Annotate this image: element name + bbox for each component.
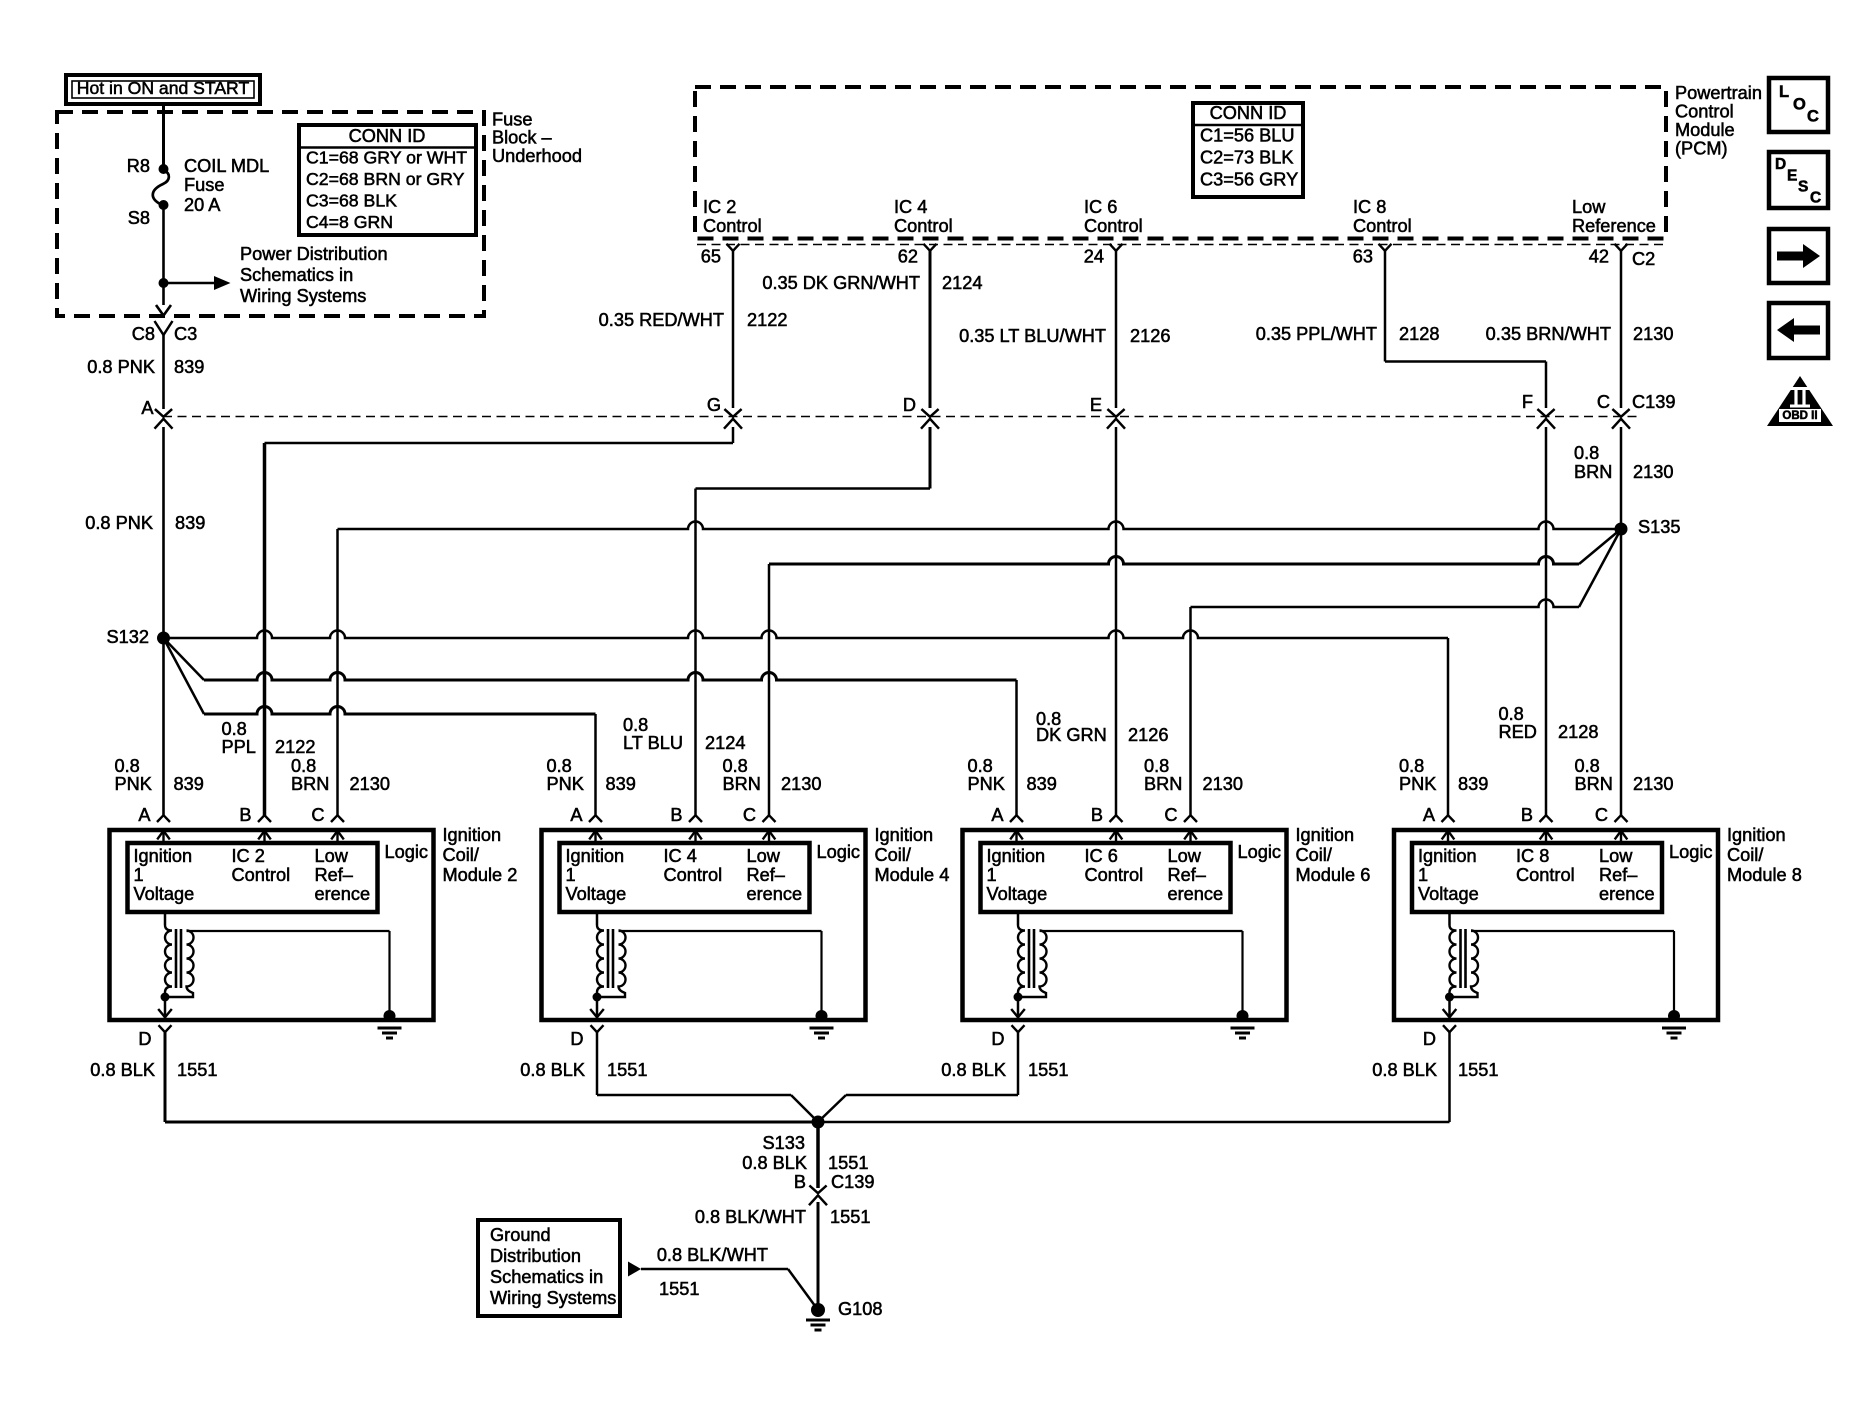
svg-text:A: A — [1423, 805, 1436, 825]
svg-text:Coil/: Coil/ — [875, 845, 912, 865]
svg-text:Fuse: Fuse — [492, 110, 532, 130]
svg-text:Control: Control — [1516, 865, 1575, 885]
svg-text:PNK: PNK — [1399, 774, 1436, 794]
svg-text:Voltage: Voltage — [987, 884, 1048, 904]
svg-text:2126: 2126 — [1130, 326, 1170, 346]
svg-text:Low: Low — [1168, 846, 1202, 866]
svg-text:C: C — [1597, 392, 1610, 412]
svg-text:C: C — [1807, 107, 1819, 125]
svg-text:0.8: 0.8 — [1144, 756, 1169, 776]
svg-text:1551: 1551 — [177, 1060, 217, 1080]
svg-text:A: A — [991, 805, 1004, 825]
svg-text:Hot in ON and START: Hot in ON and START — [77, 78, 250, 98]
svg-text:1: 1 — [566, 865, 576, 885]
svg-text:A: A — [141, 398, 154, 418]
svg-text:20 A: 20 A — [184, 195, 221, 215]
svg-text:Control: Control — [1084, 216, 1143, 236]
svg-text:Ignition: Ignition — [1418, 846, 1477, 866]
svg-text:S8: S8 — [128, 208, 150, 228]
svg-text:2130: 2130 — [781, 774, 821, 794]
svg-text:0.8: 0.8 — [222, 719, 247, 739]
svg-text:erence: erence — [315, 884, 371, 904]
svg-text:C4=8 GRN: C4=8 GRN — [306, 212, 393, 232]
svg-text:Logic: Logic — [385, 842, 428, 862]
svg-text:erence: erence — [1168, 884, 1224, 904]
svg-text:Ref–: Ref– — [1599, 865, 1638, 885]
svg-text:BRN: BRN — [1574, 462, 1612, 482]
svg-text:0.35 DK GRN/WHT: 0.35 DK GRN/WHT — [762, 273, 920, 293]
svg-text:E: E — [1787, 168, 1797, 185]
svg-text:IC 2: IC 2 — [232, 846, 265, 866]
svg-text:IC 4: IC 4 — [664, 846, 697, 866]
svg-text:BRN: BRN — [723, 774, 761, 794]
svg-text:C3=56 GRY: C3=56 GRY — [1200, 170, 1298, 190]
svg-text:0.35 RED/WHT: 0.35 RED/WHT — [599, 310, 724, 330]
svg-text:2128: 2128 — [1558, 722, 1598, 742]
svg-text:Wiring Systems: Wiring Systems — [490, 1288, 616, 1308]
svg-text:2130: 2130 — [1633, 324, 1673, 344]
svg-text:0.8: 0.8 — [1399, 756, 1424, 776]
svg-text:1: 1 — [987, 865, 997, 885]
svg-text:Logic: Logic — [817, 842, 860, 862]
svg-text:42: 42 — [1589, 247, 1609, 267]
svg-text:0.35 PPL/WHT: 0.35 PPL/WHT — [1256, 324, 1377, 344]
svg-text:0.35 LT BLU/WHT: 0.35 LT BLU/WHT — [959, 326, 1106, 346]
svg-text:Ignition: Ignition — [875, 825, 934, 845]
svg-text:LT BLU: LT BLU — [623, 733, 683, 753]
svg-text:Control: Control — [1675, 102, 1734, 122]
svg-text:2124: 2124 — [942, 273, 982, 293]
svg-text:C2=68 BRN or GRY: C2=68 BRN or GRY — [306, 169, 465, 189]
svg-text:2126: 2126 — [1128, 725, 1168, 745]
svg-text:Voltage: Voltage — [134, 884, 195, 904]
svg-text:Coil/: Coil/ — [1727, 845, 1764, 865]
svg-text:839: 839 — [606, 774, 636, 794]
svg-text:B: B — [239, 805, 251, 825]
svg-text:PNK: PNK — [968, 774, 1005, 794]
svg-text:0.8: 0.8 — [1499, 704, 1524, 724]
svg-text:Control: Control — [1353, 216, 1412, 236]
svg-text:2124: 2124 — [705, 733, 745, 753]
svg-text:0.8 BLK: 0.8 BLK — [742, 1153, 807, 1173]
svg-text:S132: S132 — [107, 627, 149, 647]
svg-text:Low: Low — [747, 846, 781, 866]
svg-text:Fuse: Fuse — [184, 175, 224, 195]
svg-text:0.8 BLK: 0.8 BLK — [1372, 1060, 1437, 1080]
svg-text:839: 839 — [1458, 774, 1488, 794]
svg-text:BRN: BRN — [1575, 774, 1613, 794]
svg-text:PPL: PPL — [222, 737, 256, 757]
svg-text:Ignition: Ignition — [1296, 825, 1355, 845]
svg-text:0.8: 0.8 — [115, 756, 140, 776]
svg-text:PNK: PNK — [115, 774, 152, 794]
svg-text:IC 8: IC 8 — [1516, 846, 1549, 866]
svg-text:2122: 2122 — [747, 310, 787, 330]
svg-text:Coil/: Coil/ — [443, 845, 480, 865]
svg-text:G: G — [707, 395, 721, 415]
svg-text:C: C — [1164, 805, 1177, 825]
svg-text:CONN ID: CONN ID — [1210, 103, 1287, 123]
svg-text:62: 62 — [898, 247, 918, 267]
svg-text:Wiring Systems: Wiring Systems — [240, 286, 366, 306]
svg-text:Control: Control — [664, 865, 723, 885]
svg-text:G108: G108 — [838, 1299, 883, 1319]
svg-text:Ignition: Ignition — [443, 825, 502, 845]
svg-text:2128: 2128 — [1399, 324, 1439, 344]
svg-text:1551: 1551 — [607, 1060, 647, 1080]
svg-text:IC 2: IC 2 — [703, 197, 736, 217]
svg-text:IC 4: IC 4 — [894, 197, 927, 217]
svg-text:C1=68 GRY or WHT: C1=68 GRY or WHT — [306, 148, 467, 168]
svg-text:Voltage: Voltage — [566, 884, 627, 904]
svg-text:D: D — [1423, 1029, 1436, 1049]
svg-text:65: 65 — [701, 247, 721, 267]
svg-text:IC 6: IC 6 — [1085, 846, 1118, 866]
svg-text:Power Distribution: Power Distribution — [240, 244, 388, 264]
svg-text:C8: C8 — [132, 324, 155, 344]
svg-text:B: B — [670, 805, 682, 825]
svg-text:839: 839 — [174, 357, 204, 377]
svg-text:0.8: 0.8 — [723, 756, 748, 776]
svg-text:Ignition: Ignition — [987, 846, 1046, 866]
svg-text:1: 1 — [1418, 865, 1428, 885]
svg-text:Module 2: Module 2 — [443, 865, 518, 885]
svg-text:C3: C3 — [174, 324, 197, 344]
svg-text:C1=56 BLU: C1=56 BLU — [1200, 126, 1295, 146]
svg-text:0.8 PNK: 0.8 PNK — [85, 513, 153, 533]
svg-text:2130: 2130 — [1633, 774, 1673, 794]
svg-text:D: D — [903, 395, 916, 415]
svg-text:IC 8: IC 8 — [1353, 197, 1386, 217]
svg-text:R8: R8 — [127, 156, 150, 176]
svg-text:24: 24 — [1084, 247, 1104, 267]
svg-text:Reference: Reference — [1572, 216, 1656, 236]
svg-text:B: B — [1091, 805, 1103, 825]
svg-text:Powertrain: Powertrain — [1675, 83, 1762, 103]
svg-text:0.8: 0.8 — [1574, 443, 1599, 463]
svg-text:C: C — [1595, 805, 1608, 825]
svg-text:1551: 1551 — [659, 1279, 699, 1299]
svg-text:Ignition: Ignition — [134, 846, 193, 866]
svg-text:Coil/: Coil/ — [1296, 845, 1333, 865]
svg-text:C: C — [311, 805, 324, 825]
svg-text:Control: Control — [1085, 865, 1144, 885]
svg-text:839: 839 — [175, 513, 205, 533]
svg-text:Block –: Block – — [492, 128, 553, 148]
svg-text:1551: 1551 — [1028, 1060, 1068, 1080]
svg-text:Low: Low — [1599, 846, 1633, 866]
svg-text:C: C — [1810, 190, 1821, 207]
svg-text:0.8: 0.8 — [1575, 756, 1600, 776]
svg-text:1551: 1551 — [1458, 1060, 1498, 1080]
svg-text:Ground: Ground — [490, 1225, 551, 1245]
svg-text:0.8: 0.8 — [291, 756, 316, 776]
svg-text:1551: 1551 — [830, 1207, 870, 1227]
svg-text:Logic: Logic — [1669, 842, 1712, 862]
svg-text:Logic: Logic — [1238, 842, 1281, 862]
svg-text:Module 8: Module 8 — [1727, 865, 1802, 885]
svg-text:2130: 2130 — [1633, 462, 1673, 482]
svg-text:839: 839 — [174, 774, 204, 794]
svg-text:COIL MDL: COIL MDL — [184, 156, 269, 176]
svg-text:F: F — [1522, 392, 1533, 412]
svg-text:DK GRN: DK GRN — [1036, 725, 1107, 745]
svg-text:2130: 2130 — [1203, 774, 1243, 794]
svg-text:2130: 2130 — [350, 774, 390, 794]
svg-text:IC 6: IC 6 — [1084, 197, 1117, 217]
svg-text:839: 839 — [1027, 774, 1057, 794]
svg-text:1551: 1551 — [828, 1153, 868, 1173]
svg-text:Low: Low — [1572, 197, 1606, 217]
svg-text:S135: S135 — [1638, 517, 1680, 537]
svg-text:Module: Module — [1675, 120, 1735, 140]
svg-text:0.8 BLK/WHT: 0.8 BLK/WHT — [695, 1207, 806, 1227]
svg-text:B: B — [1521, 805, 1533, 825]
svg-text:Control: Control — [703, 216, 762, 236]
svg-text:C139: C139 — [1632, 392, 1675, 412]
svg-text:C3=68 BLK: C3=68 BLK — [306, 191, 397, 211]
svg-text:D: D — [991, 1029, 1004, 1049]
svg-text:S133: S133 — [763, 1133, 805, 1153]
svg-text:Underhood: Underhood — [492, 146, 582, 166]
svg-text:C139: C139 — [831, 1172, 874, 1192]
svg-text:Module 6: Module 6 — [1296, 865, 1371, 885]
svg-text:Control: Control — [894, 216, 953, 236]
svg-text:0.8 PNK: 0.8 PNK — [87, 357, 155, 377]
svg-text:Control: Control — [232, 865, 291, 885]
svg-text:(PCM): (PCM) — [1675, 139, 1728, 159]
svg-text:0.8: 0.8 — [623, 715, 648, 735]
svg-text:D: D — [570, 1029, 583, 1049]
svg-text:1: 1 — [134, 865, 144, 885]
svg-text:E: E — [1090, 395, 1102, 415]
svg-text:D: D — [138, 1029, 151, 1049]
svg-text:C: C — [743, 805, 756, 825]
svg-text:0.8: 0.8 — [547, 756, 572, 776]
svg-text:63: 63 — [1353, 247, 1373, 267]
svg-text:Low: Low — [315, 846, 349, 866]
svg-text:Ignition: Ignition — [1727, 825, 1786, 845]
svg-text:0.35 BRN/WHT: 0.35 BRN/WHT — [1486, 324, 1611, 344]
svg-text:C2: C2 — [1632, 249, 1655, 269]
svg-text:2122: 2122 — [275, 737, 315, 757]
svg-text:BRN: BRN — [1144, 774, 1182, 794]
svg-text:0.8 BLK: 0.8 BLK — [941, 1060, 1006, 1080]
svg-text:C2=73 BLK: C2=73 BLK — [1200, 148, 1294, 168]
svg-text:A: A — [138, 805, 151, 825]
svg-text:0.8: 0.8 — [968, 756, 993, 776]
svg-text:Module 4: Module 4 — [875, 865, 950, 885]
svg-text:Ref–: Ref– — [315, 865, 354, 885]
svg-text:Ignition: Ignition — [566, 846, 625, 866]
svg-text:Schematics in: Schematics in — [490, 1267, 603, 1287]
svg-text:CONN ID: CONN ID — [349, 126, 426, 146]
svg-text:B: B — [794, 1172, 806, 1192]
svg-text:PNK: PNK — [547, 774, 584, 794]
svg-text:D: D — [1775, 156, 1786, 173]
svg-text:erence: erence — [1599, 884, 1655, 904]
svg-text:0.8 BLK: 0.8 BLK — [520, 1060, 585, 1080]
svg-text:0.8 BLK/WHT: 0.8 BLK/WHT — [657, 1245, 768, 1265]
svg-text:RED: RED — [1499, 722, 1537, 742]
svg-text:O: O — [1793, 95, 1806, 113]
svg-text:Distribution: Distribution — [490, 1246, 581, 1266]
svg-text:Schematics in: Schematics in — [240, 265, 353, 285]
svg-text:S: S — [1798, 179, 1808, 196]
svg-text:erence: erence — [747, 884, 803, 904]
svg-text:Voltage: Voltage — [1418, 884, 1479, 904]
svg-text:L: L — [1779, 83, 1789, 101]
svg-text:Ref–: Ref– — [1168, 865, 1207, 885]
svg-text:0.8 BLK: 0.8 BLK — [90, 1060, 155, 1080]
svg-text:OBD II: OBD II — [1782, 410, 1817, 422]
svg-text:BRN: BRN — [291, 774, 329, 794]
svg-text:Ref–: Ref– — [747, 865, 786, 885]
svg-text:A: A — [570, 805, 583, 825]
